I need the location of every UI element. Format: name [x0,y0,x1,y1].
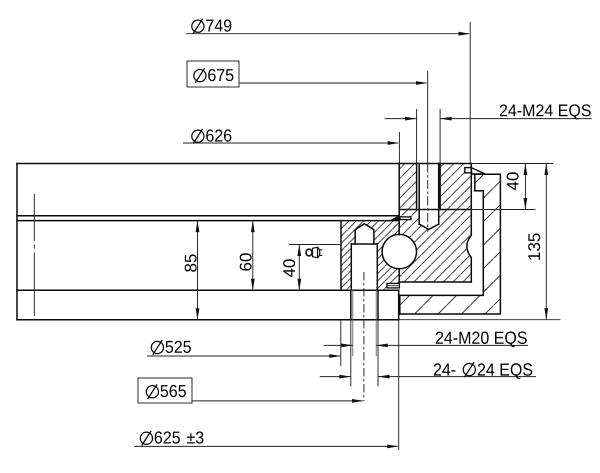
bolt hole thread extension lines below [352,320,354,357]
dim Ø626 extension line [398,132,400,164]
dim 40 left top extension line [289,244,341,246]
bottom seal strip [387,283,399,288]
dim 40 right vertical line [524,164,526,210]
arrows M24 [405,117,417,121]
M24 drill walls [418,164,420,225]
inner ring bottom / lower structure top face line [17,289,398,291]
arrow Ø525 [329,354,341,358]
inner ring section hatch [341,221,399,291]
label 40 [283,259,295,277]
bolt centerline dashed [363,272,365,401]
dim 135 vertical line [545,164,547,320]
M20 bolt head bottom seat [351,243,377,245]
dim Ø749 extension line [469,22,471,164]
top seal slot outline [400,217,411,220]
dim Ø525 line [147,355,340,357]
label 24 EQS [478,363,532,379]
dim 60 vertical line [252,221,254,291]
arrow Ø749 [459,32,471,36]
outer ring section hatch [399,164,471,283]
M24 drill point [419,224,439,229]
bottom seal notch cutout [387,283,400,290]
M24 tapped hole cutout [417,164,441,230]
diameter symbol for 626 [192,129,204,144]
arrow Ø565 [352,399,364,403]
step line extension for 40 dim [471,209,535,211]
diameter symbol for 525 [151,340,163,355]
M20 dim line left part [324,344,353,346]
bottom edge of lower structure [17,319,399,321]
M24 hole extension lines [416,109,418,164]
dim Ø625 line [134,445,398,447]
diameter symbol for 625 [140,431,152,446]
label 40 [507,172,519,190]
box around Ø565 [138,378,192,403]
arrow Ø625 [387,445,399,449]
top edge extension to right dims [471,163,553,165]
dim Ø525 extension line [340,320,342,366]
M20 dim line right part with label underline [376,344,528,346]
diameter symbol for 565 [146,384,158,399]
dim Ø565 line [192,400,363,402]
dim Ø675 extension line [427,71,429,164]
label 24-M24 EQS [500,104,591,119]
bolt hole outer extension lines below [350,320,352,387]
label 60 [240,253,252,270]
axis centerline [33,194,35,316]
Ø24 dim line right part with label underline [378,376,536,378]
lower structure tapped hole outer walls [350,290,352,320]
top seal slot cutout [400,217,411,220]
outer ring step line at depth 40 [399,209,471,211]
label 625 [155,431,180,443]
dim 40 left vertical line [298,245,300,291]
inner ring top face line [17,220,390,222]
diameter symbol for 749 [192,19,204,34]
Ø24 dim line left part [320,376,351,378]
support ring L-section hatch [400,174,501,314]
outer ring outside edge with relief wave [467,164,471,283]
top right seal retainer cutout [465,168,472,173]
upper structure bottom face line [17,215,399,217]
dim Ø625 extension line [398,320,400,450]
support ring outline [400,174,501,314]
M24 hole centerline [427,164,429,233]
lower structure tapped hole thread lines [352,290,354,320]
arrows Ø24 [339,375,351,379]
box around Ø675 [187,61,239,87]
M24 dim line left part [385,118,417,120]
inner ring bore edge [340,221,342,291]
label 749 [206,19,231,31]
M20 bolt head [355,224,374,244]
arrow Ø626 [388,141,400,145]
dim Ø626 line [183,142,398,144]
M20 bolt hole left wall [350,244,352,290]
raceway gap line lower [398,269,400,282]
arrows 135 [544,164,548,176]
label 525 [166,341,191,353]
top edge of assembly [17,163,471,165]
diameter symbol for 24 holes [463,362,475,377]
dim 85 vertical line [197,221,199,320]
label 675 [208,69,233,81]
bottom edge extension to right [399,319,561,321]
ball [382,234,416,268]
M24 hole thread walls [416,164,418,210]
M24 dim line right part with label underline [440,118,591,120]
arrows 85 [196,221,200,233]
arrow Ø675 [416,81,428,85]
top right seal wiper lip [471,168,485,174]
M20 bolt head cutout [355,224,374,244]
lower structure right spigot edge [398,290,400,320]
diameter symbol for 675 [194,68,206,83]
left edge of mounting structure [16,164,18,320]
arrows 60 [251,221,255,233]
label ±3 [187,431,203,443]
label 626 [206,129,231,141]
arrows 40 left [297,245,301,257]
label 24-M20 EQS [436,332,527,348]
ball cutout [382,234,416,268]
label 565 [161,385,186,397]
outer ring bottom face [399,281,471,283]
M20 bolt hole cutout [351,244,377,290]
dim Ø675 line [239,82,427,84]
M20 bolt hole right wall [376,244,378,290]
raceway gap line upper [398,164,400,235]
arrows 40 right [524,164,528,176]
bottom seal strip mid line [387,285,399,287]
label 135 [528,233,540,259]
label 24- [434,363,456,375]
top seal wedge (filled) [390,216,400,221]
arrows M20 [341,344,353,348]
top right seal retainer [465,168,472,173]
seal slot step line [475,190,484,192]
dim Ø749 line [186,33,469,35]
grease nipple symbol [306,247,322,258]
label 85 [185,254,197,271]
